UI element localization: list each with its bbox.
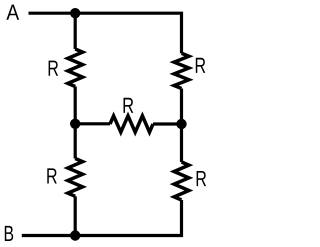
junction top	[70, 8, 80, 18]
node B	[5, 226, 13, 241]
resistor R1	[49, 49, 83, 87]
wire	[74, 196, 77, 235]
wire	[74, 124, 77, 159]
wire	[75, 13, 181, 53]
resistor R3	[110, 98, 153, 132]
wire	[75, 200, 181, 236]
wire	[74, 13, 77, 49]
wire	[29, 12, 76, 15]
junction right middle	[176, 119, 186, 129]
wire	[22, 234, 75, 237]
resistor R5	[174, 162, 206, 200]
junction bottom	[70, 230, 80, 240]
resistor R4	[47, 159, 82, 197]
resistor R2	[174, 53, 205, 88]
wire	[153, 122, 182, 125]
wire	[180, 124, 183, 162]
wire	[180, 89, 183, 125]
junction left middle	[70, 119, 80, 129]
wire	[75, 122, 110, 125]
wire	[74, 87, 77, 124]
node A	[6, 5, 19, 20]
